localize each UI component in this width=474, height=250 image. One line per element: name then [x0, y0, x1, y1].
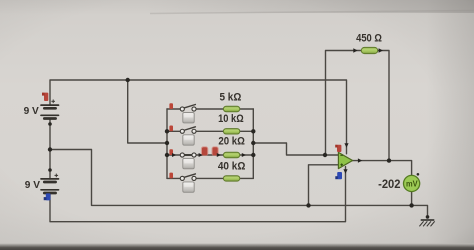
resistor R4 40k	[223, 176, 239, 181]
battery V2 top terminal dot	[48, 168, 52, 172]
svg-text:9 V: 9 V	[24, 106, 39, 117]
current arrow on op-amp output	[358, 158, 362, 162]
svg-text:20 kΩ: 20 kΩ	[218, 136, 245, 148]
node: meter bottom on common rail	[409, 203, 413, 207]
current arrows row 3	[172, 153, 246, 157]
dark band at bottom of photo	[0, 244, 474, 250]
blue voltage marker at battery V2 bottom	[44, 193, 51, 200]
red voltage marker row 4	[169, 173, 173, 179]
wire: 450 feedback loop	[326, 51, 390, 161]
node: inverting input / feedback	[323, 153, 327, 157]
wire: row 3 full (20k closed)	[167, 154, 253, 156]
toggle box S2	[183, 135, 194, 145]
wire: bus exit to op-amp inverting input	[253, 143, 338, 155]
battery V1 9V plates	[41, 105, 59, 118]
battery V1 plus sign	[51, 100, 55, 104]
wire: meter bottom to common rail	[411, 191, 413, 205]
blue voltage marker op-amp V-	[335, 172, 342, 179]
node: right bus row2	[251, 129, 255, 133]
red voltage marker op-amp V+	[335, 145, 341, 152]
arrow on V+ supply stub	[344, 143, 348, 147]
faint screen shadow line at top	[150, 11, 474, 14]
node: non-inverting drop on common rail	[306, 203, 310, 207]
op-amp U1	[338, 152, 352, 168]
wire: non-inverting input from common rail	[309, 165, 339, 206]
node: right bus exit	[251, 141, 255, 145]
resistor R5 450 feedback	[361, 47, 377, 53]
ground symbol	[419, 220, 434, 226]
wire: right resistor bus	[252, 109, 254, 178]
wire: row 4 segments (40k)	[167, 177, 253, 179]
node: output / feedback right leg	[387, 158, 391, 162]
wire: left switch bus	[166, 109, 168, 178]
wire: feed from top rail to switch bus	[128, 80, 167, 143]
svg-text:-202: -202	[378, 177, 401, 191]
red voltage marker row 3 left	[169, 149, 173, 155]
svg-text:mV: mV	[406, 179, 418, 188]
switch S2 (10k row, open)	[180, 127, 196, 134]
red voltage marker row 2	[169, 126, 173, 132]
battery V2 9V plates	[41, 179, 59, 193]
red voltage marker row 1	[169, 103, 173, 109]
resistor R2 10k	[223, 129, 239, 134]
red voltage markers row 3 right pair	[201, 146, 219, 155]
arrow on V- supply stub	[343, 169, 347, 173]
wire: common node rail to ground	[50, 150, 428, 218]
wire: op-amp output to meter	[352, 161, 411, 176]
node: right bus row3	[251, 153, 255, 157]
wire: battery V2 minus to bottom rail to op-amp V- stub	[50, 167, 346, 222]
node: battery midpoint / common	[48, 147, 52, 151]
resistor R3 20k	[223, 152, 239, 157]
svg-text:10 kΩ: 10 kΩ	[218, 113, 244, 125]
svg-text:5 kΩ: 5 kΩ	[220, 91, 242, 103]
ground stub terminal dot	[426, 215, 430, 219]
battery V2 plus sign	[55, 174, 59, 178]
svg-text:9 V: 9 V	[25, 180, 40, 191]
wire: row 1 segments (5k)	[167, 108, 253, 110]
red voltage marker at battery V1 top	[42, 93, 48, 101]
toggle box S3	[183, 158, 194, 168]
toggle box S4	[183, 182, 194, 192]
wire: top rail from battery V1 plus, with op-amp V+ stub	[50, 80, 347, 154]
switch S1 (5k row, open)	[180, 105, 196, 112]
battery V1 bottom terminal dot	[48, 122, 52, 126]
resistor R1 5k	[223, 106, 239, 111]
meter M1 mV	[404, 173, 420, 192]
node: top rail / feed junction	[126, 78, 130, 82]
wire: row 2 segments (10k)	[167, 130, 253, 132]
svg-text:40 kΩ: 40 kΩ	[218, 160, 246, 172]
svg-text:450 Ω: 450 Ω	[356, 32, 382, 44]
node: left bus feed	[165, 141, 169, 145]
toggle box S1	[183, 113, 194, 123]
node: left bus row3	[165, 153, 169, 157]
wire: between battery V1 and V2	[49, 119, 51, 179]
node: left bus row2	[165, 129, 169, 133]
switch S3 (20k row, closed)	[180, 153, 196, 157]
current arrows on feedback loop	[353, 48, 383, 52]
switch S4 (40k row, open)	[180, 174, 196, 181]
